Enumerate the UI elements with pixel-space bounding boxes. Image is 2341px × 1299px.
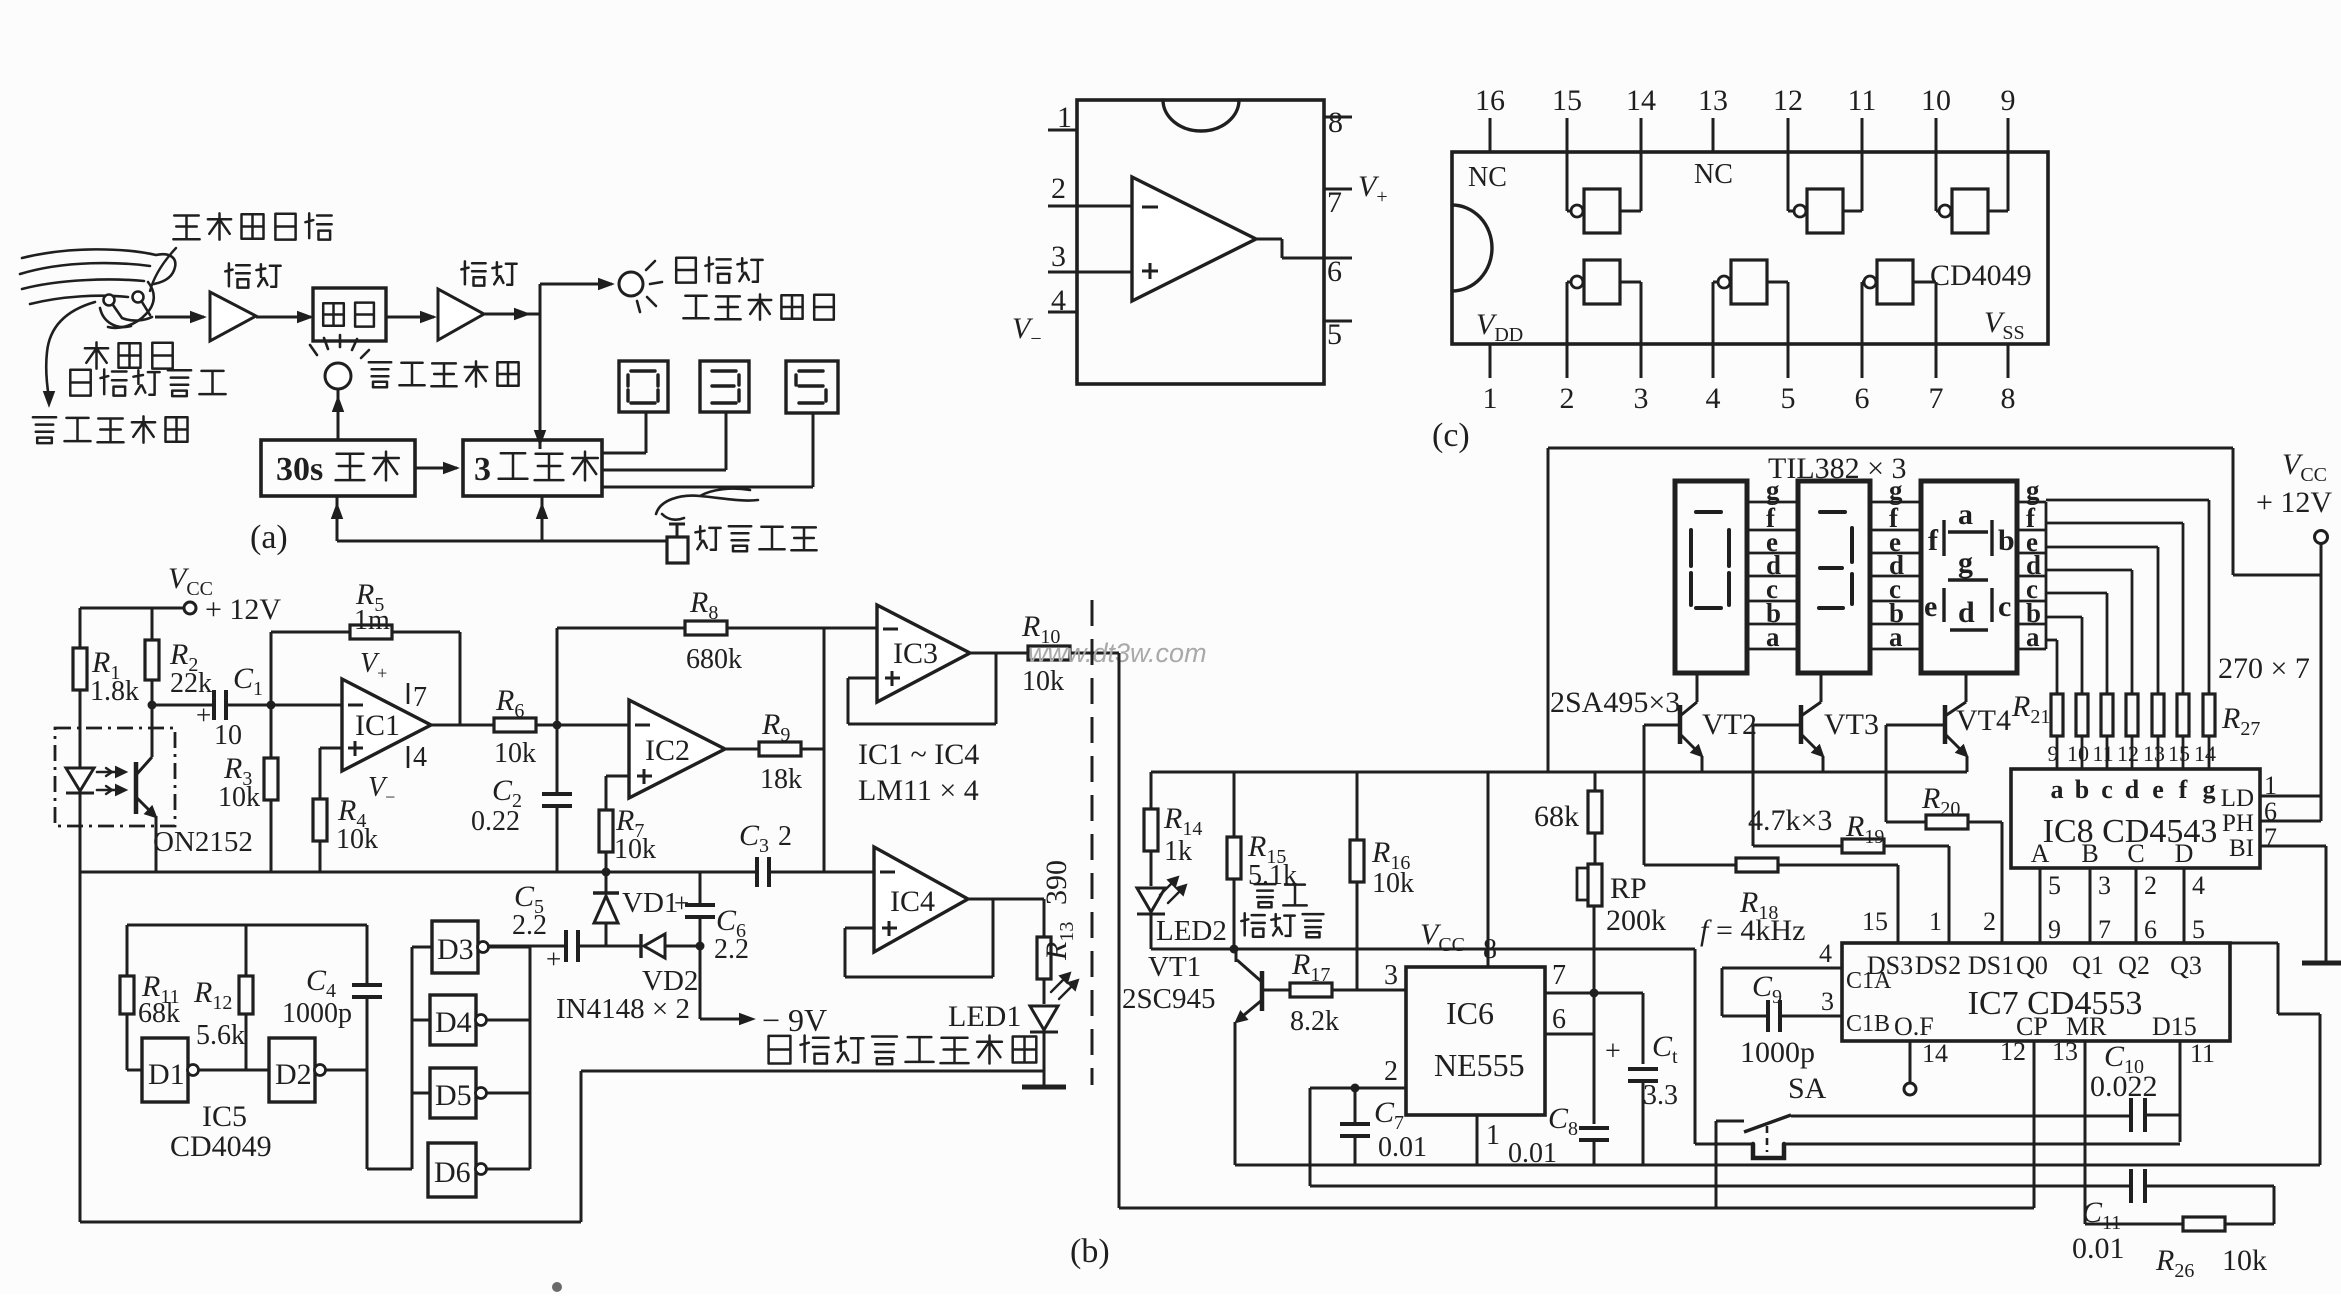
sensor working lamp: [619, 272, 643, 296]
big bottom wire 1165: [1235, 1164, 2320, 1167]
pin2 long wire 1186: [1310, 1185, 2131, 1188]
7-seg display 2: [1798, 481, 1870, 673]
filter box: [313, 288, 386, 341]
svg-text:11: 11: [1848, 84, 1877, 117]
svg-text:NC: NC: [1468, 162, 1507, 193]
wire digit1 to counter: [645, 412, 648, 453]
svg-text:1000p: 1000p: [282, 998, 352, 1029]
svg-text:8: 8: [1483, 934, 1497, 965]
svg-text:1.8k: 1.8k: [90, 676, 139, 707]
LED2: [1150, 851, 1153, 886]
svg-text:c: c: [1998, 590, 2011, 623]
svg-text:18k: 18k: [760, 764, 802, 795]
CD4049 bottom pin 3: [1640, 344, 1643, 378]
svg-text:PH: PH: [2222, 810, 2254, 837]
svg-text:6: 6: [1552, 1004, 1566, 1035]
svg-text:VT4: VT4: [1956, 704, 2011, 737]
label working indicator lamp: [683, 294, 833, 319]
wire R1 to opto: [79, 690, 82, 760]
amplifier 2: [438, 289, 484, 340]
svg-text:22k: 22k: [170, 668, 212, 699]
transistor VT2: [1696, 673, 1699, 702]
NE555 pin 6 wire: [1545, 1033, 1594, 1036]
inverter D6: [428, 1143, 476, 1197]
svg-text:10: 10: [2067, 741, 2089, 766]
svg-text:VT2: VT2: [1702, 708, 1757, 741]
stray dot: [552, 1282, 562, 1292]
transistor VT3: [1820, 673, 1823, 702]
label infrared receive: [173, 213, 331, 239]
svg-text:3: 3: [1051, 240, 1066, 273]
display box left side: [1547, 448, 1550, 772]
opto LED: [66, 768, 94, 791]
svg-text:0.022: 0.022: [2090, 1070, 2158, 1103]
transistor VT1 2SC945: [1260, 971, 1265, 1011]
wire node up to lamp1: [539, 284, 542, 314]
svg-text:a: a: [1958, 498, 1973, 531]
svg-text:LM11 × 4: LM11 × 4: [858, 774, 979, 807]
resistor R26: [2085, 1223, 2183, 1226]
wire LED to bottom rail: [79, 826, 82, 1222]
output step wire: [1256, 238, 1282, 241]
svg-text:0.01: 0.01: [1378, 1132, 1427, 1163]
NE555 pin 2 wire: [1310, 1087, 1406, 1090]
svg-text:12: 12: [2117, 741, 2139, 766]
resistor R17: [1262, 989, 1290, 992]
svg-text:IC1: IC1: [355, 709, 400, 742]
svg-text:1: 1: [1483, 382, 1498, 415]
resistors R21-R27 270x7: [2051, 694, 2063, 736]
capacitor C11: [2129, 1169, 2133, 1203]
svg-text:680k: 680k: [686, 644, 742, 675]
IC7 top right corner wire: [2230, 942, 2278, 945]
wire amp1 to filter: [256, 316, 311, 319]
pin 1: [1048, 129, 1077, 132]
svg-text:1000p: 1000p: [1740, 1036, 1815, 1069]
IC7 CD4553 box: [1842, 943, 2230, 1041]
inverter D2: [269, 1038, 315, 1102]
resistor R15: [1233, 772, 1236, 837]
svg-text:13: 13: [2052, 1037, 2078, 1066]
IC7 pin 14 O.F: [1909, 1041, 1912, 1083]
label sensor working lamp (chinese): [769, 1036, 1037, 1065]
amplifier 1: [210, 292, 256, 341]
svg-text:200k: 200k: [1606, 904, 1666, 937]
svg-text:D3: D3: [437, 933, 474, 966]
resistor R8 feedback: [556, 628, 559, 725]
svg-text:IC5: IC5: [202, 1100, 247, 1133]
inverter D4: [412, 1019, 430, 1022]
photo sensor head: [104, 295, 115, 306]
svg-text:IC6: IC6: [1446, 995, 1494, 1031]
svg-text:12: 12: [1773, 84, 1803, 117]
7-seg display 1: [1675, 481, 1747, 673]
svg-text:7: 7: [1327, 186, 1342, 219]
svg-text:a: a: [2051, 775, 2064, 804]
svg-text:Q2: Q2: [2118, 951, 2150, 980]
IC7 pin 4 C1A wire: [1722, 967, 1842, 970]
svg-text:9: 9: [2048, 915, 2061, 944]
node C1/R3: [267, 701, 276, 710]
transistor VT4: [1965, 673, 1968, 702]
svg-text:D15: D15: [2152, 1012, 2197, 1041]
svg-text:VT1: VT1: [1148, 951, 1201, 983]
svg-text:CD4049: CD4049: [170, 1130, 272, 1163]
IC7 pin 13 MR wire: [2084, 1041, 2087, 1224]
label infrared emit: [33, 416, 188, 443]
svg-text:1k: 1k: [1164, 836, 1192, 867]
svg-text:8.2k: 8.2k: [1290, 1006, 1339, 1037]
pin 6: [1324, 257, 1352, 260]
wire to sensor lamp: [540, 283, 612, 286]
svg-text:6: 6: [2144, 915, 2157, 944]
svg-text:D5: D5: [435, 1079, 472, 1112]
CD4049 DIP16 package: [1452, 152, 2048, 344]
resistor R6: [494, 718, 536, 732]
wire + input to R4: [320, 747, 342, 750]
diode VD2: [639, 934, 642, 958]
svg-text:0.22: 0.22: [471, 806, 520, 837]
resistor R14: [1150, 772, 1153, 809]
svg-text:15: 15: [1552, 84, 1582, 117]
CD4049 top pin 16: [1489, 118, 1492, 152]
capacitor C3: [755, 857, 759, 887]
7-seg display 3 segment map: [1921, 481, 2017, 673]
display outer box top: [1548, 447, 2233, 450]
svg-text:+ 12V: + 12V: [2256, 486, 2332, 519]
zener VD1: [605, 872, 608, 893]
wire R10 to right rail: [1070, 652, 1119, 655]
svg-text:4: 4: [1051, 284, 1066, 317]
IC7 pin 12 CP wire: [2033, 1041, 2036, 1208]
timer 30s box: [261, 440, 415, 496]
svg-text:C1B: C1B: [1846, 1011, 1890, 1037]
pin 4: [1048, 311, 1077, 314]
inner top wire: [127, 924, 367, 927]
NE555 pin 1 wire: [1476, 1115, 1479, 1165]
svg-text:390: 390: [1040, 860, 1073, 905]
svg-text:14: 14: [1626, 84, 1656, 117]
svg-text:f: f: [1928, 524, 1939, 557]
capacitor C4: [366, 925, 369, 984]
switch SA: [1694, 949, 1697, 1144]
svg-text:c: c: [2101, 775, 2113, 804]
svg-text:LD: LD: [2221, 785, 2254, 812]
wire LED1 to ground: [1043, 1032, 1046, 1087]
NE555 pin 8 wire: [1487, 772, 1490, 967]
svg-text:1: 1: [1057, 101, 1072, 134]
CD4049 bottom pin 1: [1489, 344, 1492, 378]
svg-text:30s: 30s: [276, 451, 323, 488]
svg-text:2: 2: [2144, 871, 2157, 900]
resistor R20 base drive VT4: [1885, 725, 1888, 822]
svg-text:O.F: O.F: [1894, 1012, 1934, 1041]
svg-text:IN4148 × 2: IN4148 × 2: [556, 993, 690, 1025]
label amplify 2: [461, 261, 516, 285]
svg-text:10k: 10k: [1022, 666, 1064, 697]
svg-text:(a): (a): [250, 519, 288, 556]
counting lamp: [325, 363, 351, 389]
svg-text:1: 1: [1486, 1120, 1500, 1151]
svg-text:DS1: DS1: [1968, 951, 2014, 980]
svg-text:4: 4: [413, 742, 427, 773]
pin 2 wire: [1048, 205, 1132, 208]
svg-text:5: 5: [1781, 382, 1796, 415]
label counting indicator lamp: [369, 361, 519, 387]
segment ladder 2-3: [1870, 501, 1921, 504]
rail up to LED1 line: [580, 1071, 583, 1222]
IC6 NE555 box: [1406, 967, 1545, 1115]
svg-text:− 9V: − 9V: [762, 1002, 827, 1038]
svg-text:5.1k: 5.1k: [1248, 860, 1297, 891]
svg-text:9: 9: [2001, 84, 2016, 117]
resistor R1: [73, 648, 87, 690]
leader curve to sensor: [150, 248, 176, 291]
bottom long wire CP: [1119, 1207, 2034, 1210]
resistor R7: [606, 775, 629, 778]
IC7 pin 11 D15 wire: [2179, 1041, 2182, 1142]
wire filter to amp2: [386, 316, 434, 319]
svg-text:D6: D6: [434, 1156, 471, 1189]
svg-text:10k: 10k: [336, 824, 378, 855]
inverter gate (bottom row): [1566, 282, 1569, 344]
resistor R3: [270, 705, 273, 758]
svg-text:10k: 10k: [218, 782, 260, 813]
svg-text:NE555: NE555: [1434, 1047, 1525, 1083]
svg-text:e: e: [1924, 590, 1937, 623]
opto light arrows: [97, 772, 124, 790]
svg-text:2: 2: [1384, 1056, 1398, 1087]
inverter gate (top row): [1935, 152, 1938, 211]
svg-text:Q3: Q3: [2170, 951, 2202, 980]
wire node down to counter: [539, 314, 542, 449]
resistor R11: [126, 925, 129, 976]
label start button: [695, 526, 816, 551]
IC4 + feedback loop: [845, 927, 874, 930]
svg-text:3: 3: [2098, 871, 2111, 900]
pin 5: [1324, 320, 1352, 323]
svg-text:11: 11: [2190, 1039, 2215, 1068]
svg-text:g: g: [1766, 475, 1780, 505]
pin 8: [1324, 116, 1352, 119]
label photoelectric sensor: [70, 369, 225, 396]
counter box 3-digit: [463, 440, 602, 496]
pin 7: [1324, 188, 1352, 191]
svg-text:2SA495×3: 2SA495×3: [1550, 686, 1680, 719]
label sensor: [676, 257, 762, 282]
CD4049 bottom pin 8: [2007, 344, 2010, 378]
svg-text:D4: D4: [435, 1006, 472, 1039]
CD4049 top pin 11: [1861, 118, 1864, 152]
svg-text:7: 7: [2098, 915, 2111, 944]
capacitor C6: [699, 872, 702, 904]
Q0-Q3 wires IC8 to IC7: [2039, 868, 2042, 943]
svg-text:3.3: 3.3: [1643, 1080, 1678, 1111]
op-amp IC3: [877, 605, 970, 702]
resistor R18 base drive VT2: [1643, 725, 1646, 865]
svg-text:10: 10: [1921, 84, 1951, 117]
label reflective: [85, 342, 173, 368]
svg-text:Q0: Q0: [2016, 951, 2048, 980]
svg-text:10k: 10k: [1372, 868, 1414, 899]
supply wire top: [80, 607, 184, 610]
svg-text:+ 12V: + 12V: [205, 593, 281, 626]
svg-text:270 × 7: 270 × 7: [2218, 652, 2310, 685]
segment ladder right of display 3: [2017, 501, 2046, 504]
svg-text:(c): (c): [1432, 417, 1470, 454]
inverter D5: [412, 1092, 430, 1095]
svg-text:15: 15: [1862, 907, 1888, 936]
D3-D6 input chain: [411, 947, 414, 1169]
svg-text:1m: 1m: [354, 605, 390, 636]
svg-text:CD4049: CD4049: [1930, 259, 2032, 292]
svg-text:+: +: [674, 888, 689, 918]
inverter gate (top row): [1787, 152, 1790, 211]
pin 3 wire: [1048, 271, 1132, 274]
feedback wire start button: [337, 540, 667, 543]
svg-text:1: 1: [1929, 907, 1942, 936]
CD4049 top pin 13: [1712, 118, 1715, 152]
svg-text:4: 4: [2192, 871, 2205, 900]
op-amp triangle: [1132, 177, 1256, 301]
emitter arrow curve: [46, 302, 95, 398]
collector line Vcc8: [1151, 948, 1695, 951]
wire digit2 to counter: [725, 412, 728, 470]
right rail from R10: [1118, 653, 1121, 1208]
resistor R10: [1028, 646, 1070, 660]
svg-text:g: g: [2203, 775, 2216, 804]
resistor R9: [725, 748, 759, 751]
svg-text:15: 15: [2168, 741, 2190, 766]
svg-text:2: 2: [1983, 907, 1996, 936]
segment ladder 1-2: [1747, 501, 1798, 504]
ground bar right: [2302, 961, 2341, 966]
svg-text:3: 3: [474, 451, 491, 488]
wire D2 output: [325, 1069, 367, 1072]
svg-text:NC: NC: [1694, 159, 1733, 190]
wire D1 to D2: [198, 1069, 269, 1072]
svg-text:10: 10: [214, 720, 242, 751]
CD4049 top pin 9: [2007, 118, 2010, 152]
svg-text:6: 6: [1855, 382, 1870, 415]
IC8 LD wire: [2260, 795, 2321, 798]
svg-text:g: g: [2026, 475, 2040, 505]
svg-text:LED2: LED2: [1156, 915, 1227, 947]
svg-text:5: 5: [1327, 318, 1342, 351]
resistor R12: [245, 925, 248, 976]
digit display 5: [786, 361, 838, 413]
svg-text:8: 8: [2001, 382, 2016, 415]
wire digit3 to counter: [812, 413, 815, 487]
resistor R4: [319, 748, 322, 799]
capacitor C1: [152, 704, 214, 707]
optocoupler ON2152 box: [55, 728, 175, 826]
svg-text:13: 13: [1698, 84, 1728, 117]
hand sketch (reflective object): [20, 249, 175, 327]
svg-text:4.7k×3: 4.7k×3: [1748, 804, 1832, 837]
wire R3 to bus: [270, 800, 273, 872]
svg-text:5: 5: [2192, 915, 2205, 944]
svg-text:f: f: [2179, 775, 2188, 804]
svg-text:a: a: [1766, 622, 1780, 652]
wire R11 to D1 input: [126, 1014, 129, 1070]
label filter: [323, 303, 374, 327]
svg-text:RP: RP: [1610, 872, 1647, 905]
svg-text:6: 6: [1327, 255, 1342, 288]
svg-text:www.dt3w.com: www.dt3w.com: [1028, 638, 1207, 668]
capacitor C10: [2129, 1098, 2133, 1132]
bottom rail: [80, 1221, 581, 1224]
resistor R19 base drive VT3: [1752, 725, 1755, 846]
svg-text:5: 5: [2048, 871, 2061, 900]
wire timer to counter: [415, 467, 457, 470]
capacitor C5: [578, 945, 641, 948]
svg-text:68k: 68k: [138, 998, 180, 1029]
op-amp IC4: [874, 847, 968, 952]
supply line lower section: [1151, 771, 1967, 774]
svg-text:VT3: VT3: [1824, 708, 1879, 741]
svg-text:2.2: 2.2: [714, 934, 749, 965]
svg-text:= 4kHz: = 4kHz: [1716, 914, 1805, 947]
svg-text:B: B: [2081, 839, 2098, 868]
svg-text:D2: D2: [275, 1058, 312, 1091]
svg-text:d: d: [1958, 596, 1975, 629]
svg-text:g: g: [1889, 475, 1903, 505]
svg-text:D1: D1: [148, 1058, 185, 1091]
svg-text:3: 3: [1634, 382, 1649, 415]
svg-text:IC3: IC3: [893, 637, 938, 670]
IC3 output wire: [970, 652, 1028, 655]
wire R6 to node: [536, 724, 629, 727]
potentiometer RP 200k: [1594, 833, 1597, 864]
svg-text:+: +: [196, 700, 211, 730]
svg-text:12: 12: [2000, 1037, 2026, 1066]
svg-text:5.6k: 5.6k: [196, 1020, 245, 1051]
IC8 CD4543 box: [2011, 769, 2260, 868]
capacitor Ct electrolytic: [1594, 992, 1643, 995]
Vcc wire to terminal: [2233, 574, 2321, 577]
svg-text:IC7 CD4553: IC7 CD4553: [1968, 985, 2143, 1022]
wire lamp2 to timer box: [337, 390, 340, 440]
svg-text:a: a: [1889, 622, 1903, 652]
CD4049 bottom pin 7: [1935, 344, 1938, 378]
label amplify 1: [225, 263, 280, 287]
svg-text:10k: 10k: [2222, 1244, 2267, 1277]
feedback resistor R5: [270, 632, 273, 705]
op-amp IC1: [342, 679, 431, 771]
resistor 68k: [1594, 772, 1597, 791]
digit display 3: [700, 361, 749, 412]
CD4049 top pin 15: [1566, 118, 1569, 152]
svg-text:e: e: [2152, 775, 2164, 804]
svg-text:11: 11: [2092, 741, 2113, 766]
D outputs chain: [488, 946, 530, 949]
svg-text:DS2: DS2: [1915, 951, 1961, 980]
svg-text:b: b: [2075, 775, 2089, 804]
svg-text:3: 3: [1821, 987, 1834, 1016]
inverter gate (bottom row): [1712, 282, 1715, 344]
display box right side: [2232, 448, 2235, 575]
wire amp2 to node: [484, 313, 540, 316]
svg-text:a: a: [2026, 622, 2040, 652]
LED1: [1043, 979, 1046, 1004]
svg-text:7: 7: [2264, 823, 2277, 852]
svg-text:4: 4: [1706, 382, 1721, 415]
CD4049 top pin 14: [1640, 118, 1643, 152]
svg-text:LED1: LED1: [948, 1000, 1021, 1033]
svg-text:2.2: 2.2: [512, 910, 547, 941]
IC1 pin 4 tick: [407, 746, 410, 768]
